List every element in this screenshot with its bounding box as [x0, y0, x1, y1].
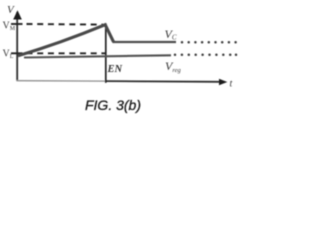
- VL dashed level line: [27, 52, 106, 54]
- svg-text:EN: EN: [107, 64, 123, 75]
- svg-text:VL: VL: [3, 49, 14, 61]
- svg-text:Vreg: Vreg: [165, 59, 182, 74]
- x-axis t: [17, 80, 107, 82]
- svg-text:t: t: [230, 79, 233, 90]
- EN vertical timing line: [105, 24, 107, 83]
- svg-text:VM: VM: [3, 21, 16, 33]
- svg-text:FIG. 3(b): FIG. 3(b): [85, 97, 141, 113]
- svg-text:VC: VC: [165, 27, 177, 42]
- VC dotted continuation: [181, 41, 237, 44]
- VC flat line: [113, 41, 177, 43]
- VC ramp trace (rise, fall, flat): [18, 25, 114, 56]
- x-axis arrowhead: [219, 79, 227, 86]
- svg-text:V: V: [7, 4, 15, 16]
- VM dashed level line: [27, 23, 104, 26]
- VM tick: [11, 23, 23, 25]
- y-axis V: [16, 12, 18, 81]
- VL tick: [11, 52, 23, 54]
- Vreg line: [24, 55, 171, 57]
- Vreg dotted continuation: [174, 54, 238, 57]
- y-axis arrowhead: [13, 10, 22, 19]
